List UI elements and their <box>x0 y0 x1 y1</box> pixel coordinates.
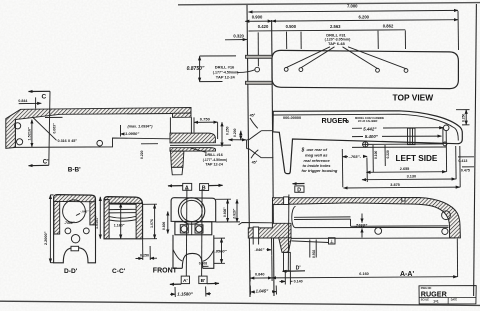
dim 0.862 <box>383 11 459 50</box>
svg-text:1.160”: 1.160” <box>114 223 125 227</box>
svg-text:45°: 45° <box>252 160 258 164</box>
lug foot <box>172 167 183 175</box>
svg-text:1.1580”: 1.1580” <box>177 292 193 297</box>
hole 1 <box>284 68 288 72</box>
lug leg (hatched) <box>279 238 292 253</box>
hole circle rear small <box>443 142 447 146</box>
frame right edge <box>474 4 477 296</box>
svg-text:1.076: 1.076 <box>150 219 154 228</box>
collar centerline <box>170 144 231 146</box>
C-C' center dim 1.160 <box>114 204 125 239</box>
svg-text:TOP VIEW: TOP VIEW <box>393 93 434 103</box>
rear hole <box>443 125 449 131</box>
divider <box>419 297 476 299</box>
section line A <box>185 189 188 276</box>
arch <box>182 253 202 268</box>
panel divider line at x~272 <box>272 20 274 296</box>
hole 2 <box>299 68 303 72</box>
D-D' right wall hatch <box>90 202 95 225</box>
dim 0.608 <box>216 199 231 222</box>
svg-text:0.502: 0.502 <box>312 250 316 258</box>
svg-text:(.177”-4.50mm): (.177”-4.50mm) <box>203 158 227 162</box>
A label box <box>183 183 192 191</box>
dim 5.400 <box>352 127 443 145</box>
svg-text:FRONT: FRONT <box>153 268 178 275</box>
dim 0.250 rear vertical <box>456 110 470 125</box>
svg-text:(max. 1.0934”): (max. 1.0934”) <box>128 124 154 128</box>
svg-text:0.100: 0.100 <box>374 151 378 159</box>
svg-text:DRILL #16: DRILL #16 <box>215 64 235 69</box>
svg-text:RUGER: RUGER <box>421 289 448 298</box>
svg-text:0.320: 0.320 <box>233 34 244 39</box>
svg-text:$: $ <box>301 147 305 153</box>
barrel stub top wall <box>246 55 273 84</box>
dim 0.250 gap <box>136 240 158 261</box>
ramp diagonal <box>33 118 57 141</box>
svg-text:1.0950”: 1.0950” <box>125 131 139 136</box>
page top edge <box>178 3 480 5</box>
hole circle front (cross) <box>362 141 369 148</box>
svg-text:.7460”: .7460” <box>64 221 75 225</box>
svg-text:0.750: 0.750 <box>200 117 211 122</box>
svg-text:2.655: 2.655 <box>400 167 410 171</box>
svg-text:0.250: 0.250 <box>462 114 466 122</box>
svg-text:0.220: 0.220 <box>140 150 144 159</box>
svg-text:000-00000: 000-00000 <box>283 116 301 120</box>
svg-text:C: C <box>42 93 47 100</box>
svg-text:A: A <box>185 185 189 191</box>
svg-text:D: D <box>297 187 301 193</box>
dim 0.920 <box>216 199 240 222</box>
front upper wall box <box>271 205 273 224</box>
lug slot white <box>253 227 258 238</box>
boss rect <box>408 128 416 144</box>
B-B' band thick tail <box>173 113 192 117</box>
front wall + lug (hatched) <box>248 223 291 238</box>
ledge line <box>45 116 63 118</box>
svg-text:C': C' <box>43 160 49 166</box>
dim 1.0950 <box>121 125 140 137</box>
mid band <box>175 222 212 235</box>
panel divider line at x~248 <box>247 5 250 297</box>
svg-text:0.862: 0.862 <box>383 24 394 29</box>
vertical dim 0.100 <box>373 145 378 172</box>
svg-text:LEFT SIDE: LEFT SIDE <box>396 154 438 163</box>
perp symbol box <box>291 238 335 244</box>
dim 0.900 <box>245 15 272 22</box>
svg-text:TAP 12-24: TAP 12-24 <box>205 163 223 167</box>
bolt boxes <box>180 225 188 233</box>
hole 3 <box>376 68 380 72</box>
svg-text:.8560”: .8560” <box>215 248 227 253</box>
dim .046 <box>255 239 272 256</box>
title block box <box>419 286 476 304</box>
svg-text:SCALE: SCALE <box>421 299 430 302</box>
svg-text:A': A' <box>183 278 188 284</box>
V-block end shape <box>229 113 274 164</box>
B' arrow <box>207 282 219 284</box>
svg-text:0.8750”: 0.8750” <box>187 66 205 72</box>
receiver body top view <box>272 50 458 88</box>
dim 0.413 <box>458 157 474 163</box>
dim 0.475 <box>461 167 474 173</box>
barrel stub bottom wall <box>246 81 273 84</box>
dim 0.502 vertical <box>310 240 316 259</box>
rear inner line <box>455 129 458 141</box>
svg-text:-.765”-: -.765”- <box>349 154 362 159</box>
svg-text:22 LR CALIBER: 22 LR CALIBER <box>358 119 377 123</box>
svg-text:B-B': B-B' <box>68 166 81 173</box>
mid hole <box>97 140 103 146</box>
dim .8560 <box>214 238 227 263</box>
dim 2.563 <box>330 24 378 49</box>
B arrow <box>209 184 223 186</box>
stub hole <box>255 67 260 72</box>
dim 0.840 <box>250 256 272 282</box>
svg-text:0.200: 0.200 <box>233 128 237 137</box>
hole 4 <box>404 69 408 73</box>
svg-text:1.5151”: 1.5151” <box>95 216 99 229</box>
D' label + arrow <box>283 266 306 272</box>
svg-text:0.900: 0.900 <box>252 15 263 20</box>
svg-text:5.442”: 5.442” <box>363 127 377 132</box>
svg-text:6.200: 6.200 <box>359 14 370 19</box>
svg-text:RUGER: RUGER <box>322 116 349 125</box>
svg-text:3.875: 3.875 <box>390 183 400 187</box>
svg-text:0.840: 0.840 <box>255 273 265 277</box>
svg-text:B: B <box>202 186 206 192</box>
dim 0.308 <box>199 262 209 267</box>
svg-text:.046”: .046” <box>255 247 265 252</box>
svg-text:2.563: 2.563 <box>330 24 341 29</box>
svg-text:0.250: 0.250 <box>225 126 229 135</box>
svg-text:0.475: 0.475 <box>461 169 470 173</box>
bottom edge <box>291 237 455 239</box>
dim 0.250 vertical at collar <box>222 122 229 146</box>
receiver left side outline <box>273 111 462 174</box>
svg-text:A-A': A-A' <box>400 271 414 278</box>
dim 6.160 <box>272 239 458 278</box>
svg-text:D-D': D-D' <box>64 268 78 275</box>
screw hole channel walls <box>169 117 171 133</box>
dim 0.320 <box>225 34 247 40</box>
dim 0.806 <box>162 212 168 234</box>
B-B' collar bottom band (hatched) <box>170 148 216 152</box>
date cell <box>447 298 449 304</box>
C-C' right wall hatch <box>136 203 142 238</box>
svg-text:0.063”: 0.063” <box>53 123 57 133</box>
A' arrow <box>170 283 181 285</box>
svg-text:0.316 X 45°: 0.316 X 45° <box>58 139 78 143</box>
section line B <box>201 189 204 276</box>
svg-text:5.400”: 5.400” <box>365 134 379 139</box>
shoulder curves <box>173 250 182 261</box>
D-D' small holes <box>65 228 71 234</box>
A' box <box>181 276 189 284</box>
svg-text:0.308: 0.308 <box>199 262 207 266</box>
svg-text:TAP 12-24: TAP 12-24 <box>216 75 236 80</box>
dim 0.220 vertical <box>140 144 158 159</box>
svg-text:0.920”: 0.920” <box>232 208 236 218</box>
svg-text:-.040”: -.040” <box>80 209 89 213</box>
D-D' big bore <box>63 200 86 223</box>
svg-text:TAP 6-48: TAP 6-48 <box>328 41 346 46</box>
dim .765 <box>342 149 367 187</box>
lower body <box>173 235 214 268</box>
dim 1.045 <box>250 286 276 295</box>
svg-text:B': B' <box>201 278 206 284</box>
dim 1.076 vertical <box>143 204 157 239</box>
svg-text:0.220: 0.220 <box>386 150 390 158</box>
svg-text:C-C': C-C' <box>112 268 126 275</box>
rear hole upper <box>15 123 21 129</box>
dim 6.200 <box>272 14 458 21</box>
D-D' outline <box>54 194 96 262</box>
dim 3.875 <box>344 146 461 188</box>
inner rear wall edge <box>14 120 16 148</box>
svg-text:DRILL #31: DRILL #31 <box>326 32 346 37</box>
D-D' top wall hatch <box>54 195 95 202</box>
svg-text:1=1: 1=1 <box>433 299 439 303</box>
svg-text:2.2000”: 2.2000” <box>44 231 48 245</box>
section line C <box>29 91 51 165</box>
svg-text:0.844: 0.844 <box>18 99 27 103</box>
rear hole lower <box>442 228 448 234</box>
C-C' left wall hatch <box>104 200 109 239</box>
svg-text:DRILL #16: DRILL #16 <box>205 153 223 157</box>
dim 1.1580 <box>170 287 211 298</box>
svg-text:use rear of: use rear of <box>307 147 328 152</box>
svg-text:1.5216”: 1.5216” <box>28 127 32 141</box>
svg-text:DATE: DATE <box>451 299 458 302</box>
C-C' top wall hatch <box>104 197 142 205</box>
handwritten note <box>301 147 338 173</box>
dim 1.5151 vertical <box>95 197 100 239</box>
C-C' outline <box>104 197 143 239</box>
dim 0.844 <box>18 97 41 108</box>
svg-text:⊥: ⊥ <box>330 239 334 244</box>
upper body <box>171 198 216 222</box>
svg-text:0.608”: 0.608” <box>223 207 227 217</box>
B-B' lug leg (hatched) <box>171 151 184 167</box>
svg-text:mag well as: mag well as <box>305 153 328 158</box>
B' box <box>199 276 207 284</box>
D-D' text .040 <box>76 209 89 215</box>
baseline row <box>352 146 446 148</box>
svg-text:0.806: 0.806 <box>162 222 166 230</box>
D-D' left wall hatch <box>54 201 60 234</box>
connecting line <box>368 143 443 146</box>
receiver bottom edge <box>15 138 170 147</box>
dim 0.500 <box>286 24 302 49</box>
drill #16 callout <box>213 64 255 79</box>
dim .7460 <box>355 214 368 238</box>
dim 0.140 <box>280 271 303 285</box>
svg-text:7.000: 7.000 <box>347 4 358 9</box>
D-D' arch notch <box>71 246 79 251</box>
drill #16 callout B-B <box>190 148 227 167</box>
svg-text:0.420: 0.420 <box>258 24 269 29</box>
dim 7.000 <box>249 4 459 12</box>
dim 2.2000 vertical <box>44 195 54 263</box>
dim 0.8750 <box>187 56 236 82</box>
barrel ring outer <box>178 198 204 224</box>
B label box <box>200 184 209 192</box>
B-B' barrel collar top (hatched) <box>170 133 215 143</box>
svg-text:6.160: 6.160 <box>359 272 369 276</box>
dim 2.655 <box>366 131 446 172</box>
dim 0.750 <box>194 117 218 139</box>
rear hole lower <box>17 139 23 145</box>
bolt circles <box>181 226 187 232</box>
dim 0.420 <box>249 24 406 66</box>
dim 3.130 <box>362 146 456 180</box>
D section line <box>287 195 290 271</box>
vertical dim 0.220 <box>385 145 390 166</box>
A arrow <box>168 185 183 187</box>
barrel ring inner <box>181 200 202 221</box>
rear hole upper <box>442 211 451 220</box>
mid hole <box>375 228 382 235</box>
barrel socket curve <box>292 206 296 227</box>
svg-text:.7460”: .7460” <box>355 223 368 228</box>
band slot gap <box>284 197 289 205</box>
svg-text:for trigger housing: for trigger housing <box>302 168 338 173</box>
page bottom edge <box>0 301 480 305</box>
svg-text:0.250: 0.250 <box>140 253 149 257</box>
A-A' top wall (hatched) <box>273 198 461 238</box>
drill #31 callout <box>287 32 406 68</box>
dim 5.442 <box>352 127 443 132</box>
svg-text:0.413: 0.413 <box>458 159 467 163</box>
leg foot <box>284 252 291 270</box>
svg-text:0.140: 0.140 <box>294 280 303 284</box>
svg-text:45°: 45° <box>250 113 256 117</box>
dim 1.5216 vertical <box>28 120 32 147</box>
band notch square <box>402 198 405 201</box>
svg-text:3.130: 3.130 <box>407 175 417 179</box>
B-B' top wall + rear wall (hatched) <box>6 108 191 149</box>
D arrow <box>293 184 305 194</box>
bolt rail lines <box>294 216 351 218</box>
svg-text:0.500: 0.500 <box>286 24 297 29</box>
C-C' interior profile <box>109 209 136 221</box>
top band inner line <box>273 114 455 128</box>
svg-text:1.045”: 1.045” <box>256 288 269 293</box>
